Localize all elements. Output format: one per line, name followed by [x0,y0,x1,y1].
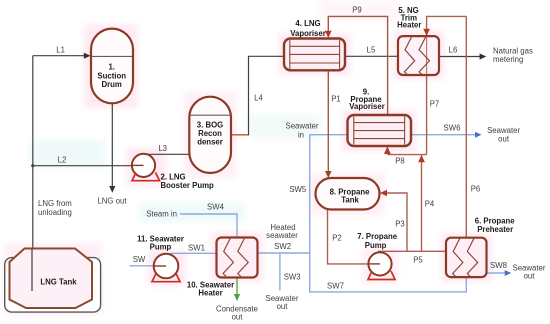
heat exchanger NG trim heater E5 [398,36,439,75]
svg-text:7. Propane: 7. Propane [357,232,398,241]
svg-text:L1: L1 [56,46,65,55]
heat exchanger LNG vaporiser E4 [284,39,345,71]
heat exchanger propane preheater E6 [446,238,487,277]
wire P2 [328,210,369,264]
svg-text:P1: P1 [331,95,341,104]
svg-text:denser: denser [197,138,223,147]
svg-text:P3: P3 [395,220,405,229]
svg-text:LNG from: LNG from [38,199,72,208]
svg-text:SW6: SW6 [444,124,461,133]
svg-text:Tank: Tank [341,196,359,205]
wire L5 [345,55,398,57]
wire condensate out [236,278,238,295]
svg-text:P7: P7 [430,100,440,109]
wire L6 [439,56,480,58]
svg-text:LNG Tank: LNG Tank [40,278,77,287]
svg-text:P5: P5 [413,256,423,265]
svg-text:P4: P4 [425,200,435,209]
svg-text:Preheater: Preheater [477,225,513,234]
svg-text:L6: L6 [449,46,458,55]
svg-text:P6: P6 [471,185,481,194]
svg-text:Heater: Heater [198,289,222,298]
wire SW4 steam in [180,214,237,238]
wire SW seawater suction [130,265,167,267]
wire seawater in [310,134,348,136]
svg-text:in: in [298,131,304,140]
svg-text:P2: P2 [332,234,342,243]
wire LNG out [111,103,113,186]
svg-text:SW8: SW8 [490,261,507,270]
wire SW2 [258,252,310,254]
svg-text:L2: L2 [58,156,67,165]
pump propane P7 [368,252,395,279]
heat exchanger propane vaporiser E9 [348,115,412,146]
wire P4 [421,156,423,252]
svg-text:out: out [232,313,244,322]
svg-text:out: out [524,272,536,281]
svg-text:Pump: Pump [365,241,387,250]
wire SW8 [487,272,506,274]
wire SW6 [411,134,476,136]
wire L3 [144,153,190,155]
wire L1 [33,55,85,57]
svg-text:Seawater: Seawater [286,122,319,131]
wire P7 [427,16,467,28]
svg-text:SW4: SW4 [207,203,225,212]
wire SW5 SW7 trunk [310,135,467,292]
svg-text:Vaporiser: Vaporiser [349,102,385,111]
svg-text:unloading: unloading [38,208,72,217]
svg-text:L3: L3 [158,144,167,153]
svg-text:out: out [277,302,289,311]
tank LNG storage [5,249,101,313]
svg-text:LNG out: LNG out [97,197,127,206]
vessel propane tank V8 [316,178,380,210]
wire P8 [387,154,426,156]
wire LNG from unloading [32,56,34,291]
svg-text:Suction: Suction [97,71,126,80]
vessel suction drum V1 [91,29,133,104]
svg-text:Booster Pump: Booster Pump [161,181,215,190]
svg-text:SW3: SW3 [284,272,301,281]
svg-text:seawater: seawater [266,231,298,240]
wire L4 [231,134,249,136]
svg-text:Drum: Drum [102,80,122,89]
svg-text:1.: 1. [108,63,115,72]
wire P5 [378,250,446,252]
pump LNG booster P2 [132,154,160,181]
svg-text:Vaporiser: Vaporiser [290,29,326,38]
svg-text:SW: SW [133,255,146,264]
svg-text:SW7: SW7 [327,282,344,291]
svg-text:Steam in: Steam in [146,210,177,219]
wire L2 [33,165,144,167]
wire P9 [328,16,387,115]
svg-text:Heater: Heater [397,21,421,30]
svg-text:SW2: SW2 [274,242,291,251]
svg-text:P9: P9 [352,6,362,15]
svg-text:Pump: Pump [150,243,172,252]
svg-text:metering: metering [493,55,523,64]
svg-text:4. LNG: 4. LNG [295,19,320,28]
wire SW1 [170,252,217,254]
svg-text:SW1: SW1 [188,243,205,252]
svg-text:P8: P8 [395,157,405,166]
pump seawater P11 [152,254,180,282]
svg-text:L4: L4 [254,94,263,103]
wire P1 [327,70,329,171]
wire SW3 [279,253,281,291]
svg-text:SW5: SW5 [289,185,307,194]
wire P3 [387,193,408,251]
wire P6 [465,16,467,237]
heat exchanger seawater heater E10 [217,238,258,278]
vessel BOG recondenser V3 [189,97,231,173]
svg-text:L5: L5 [367,46,376,55]
svg-text:out: out [498,135,510,144]
